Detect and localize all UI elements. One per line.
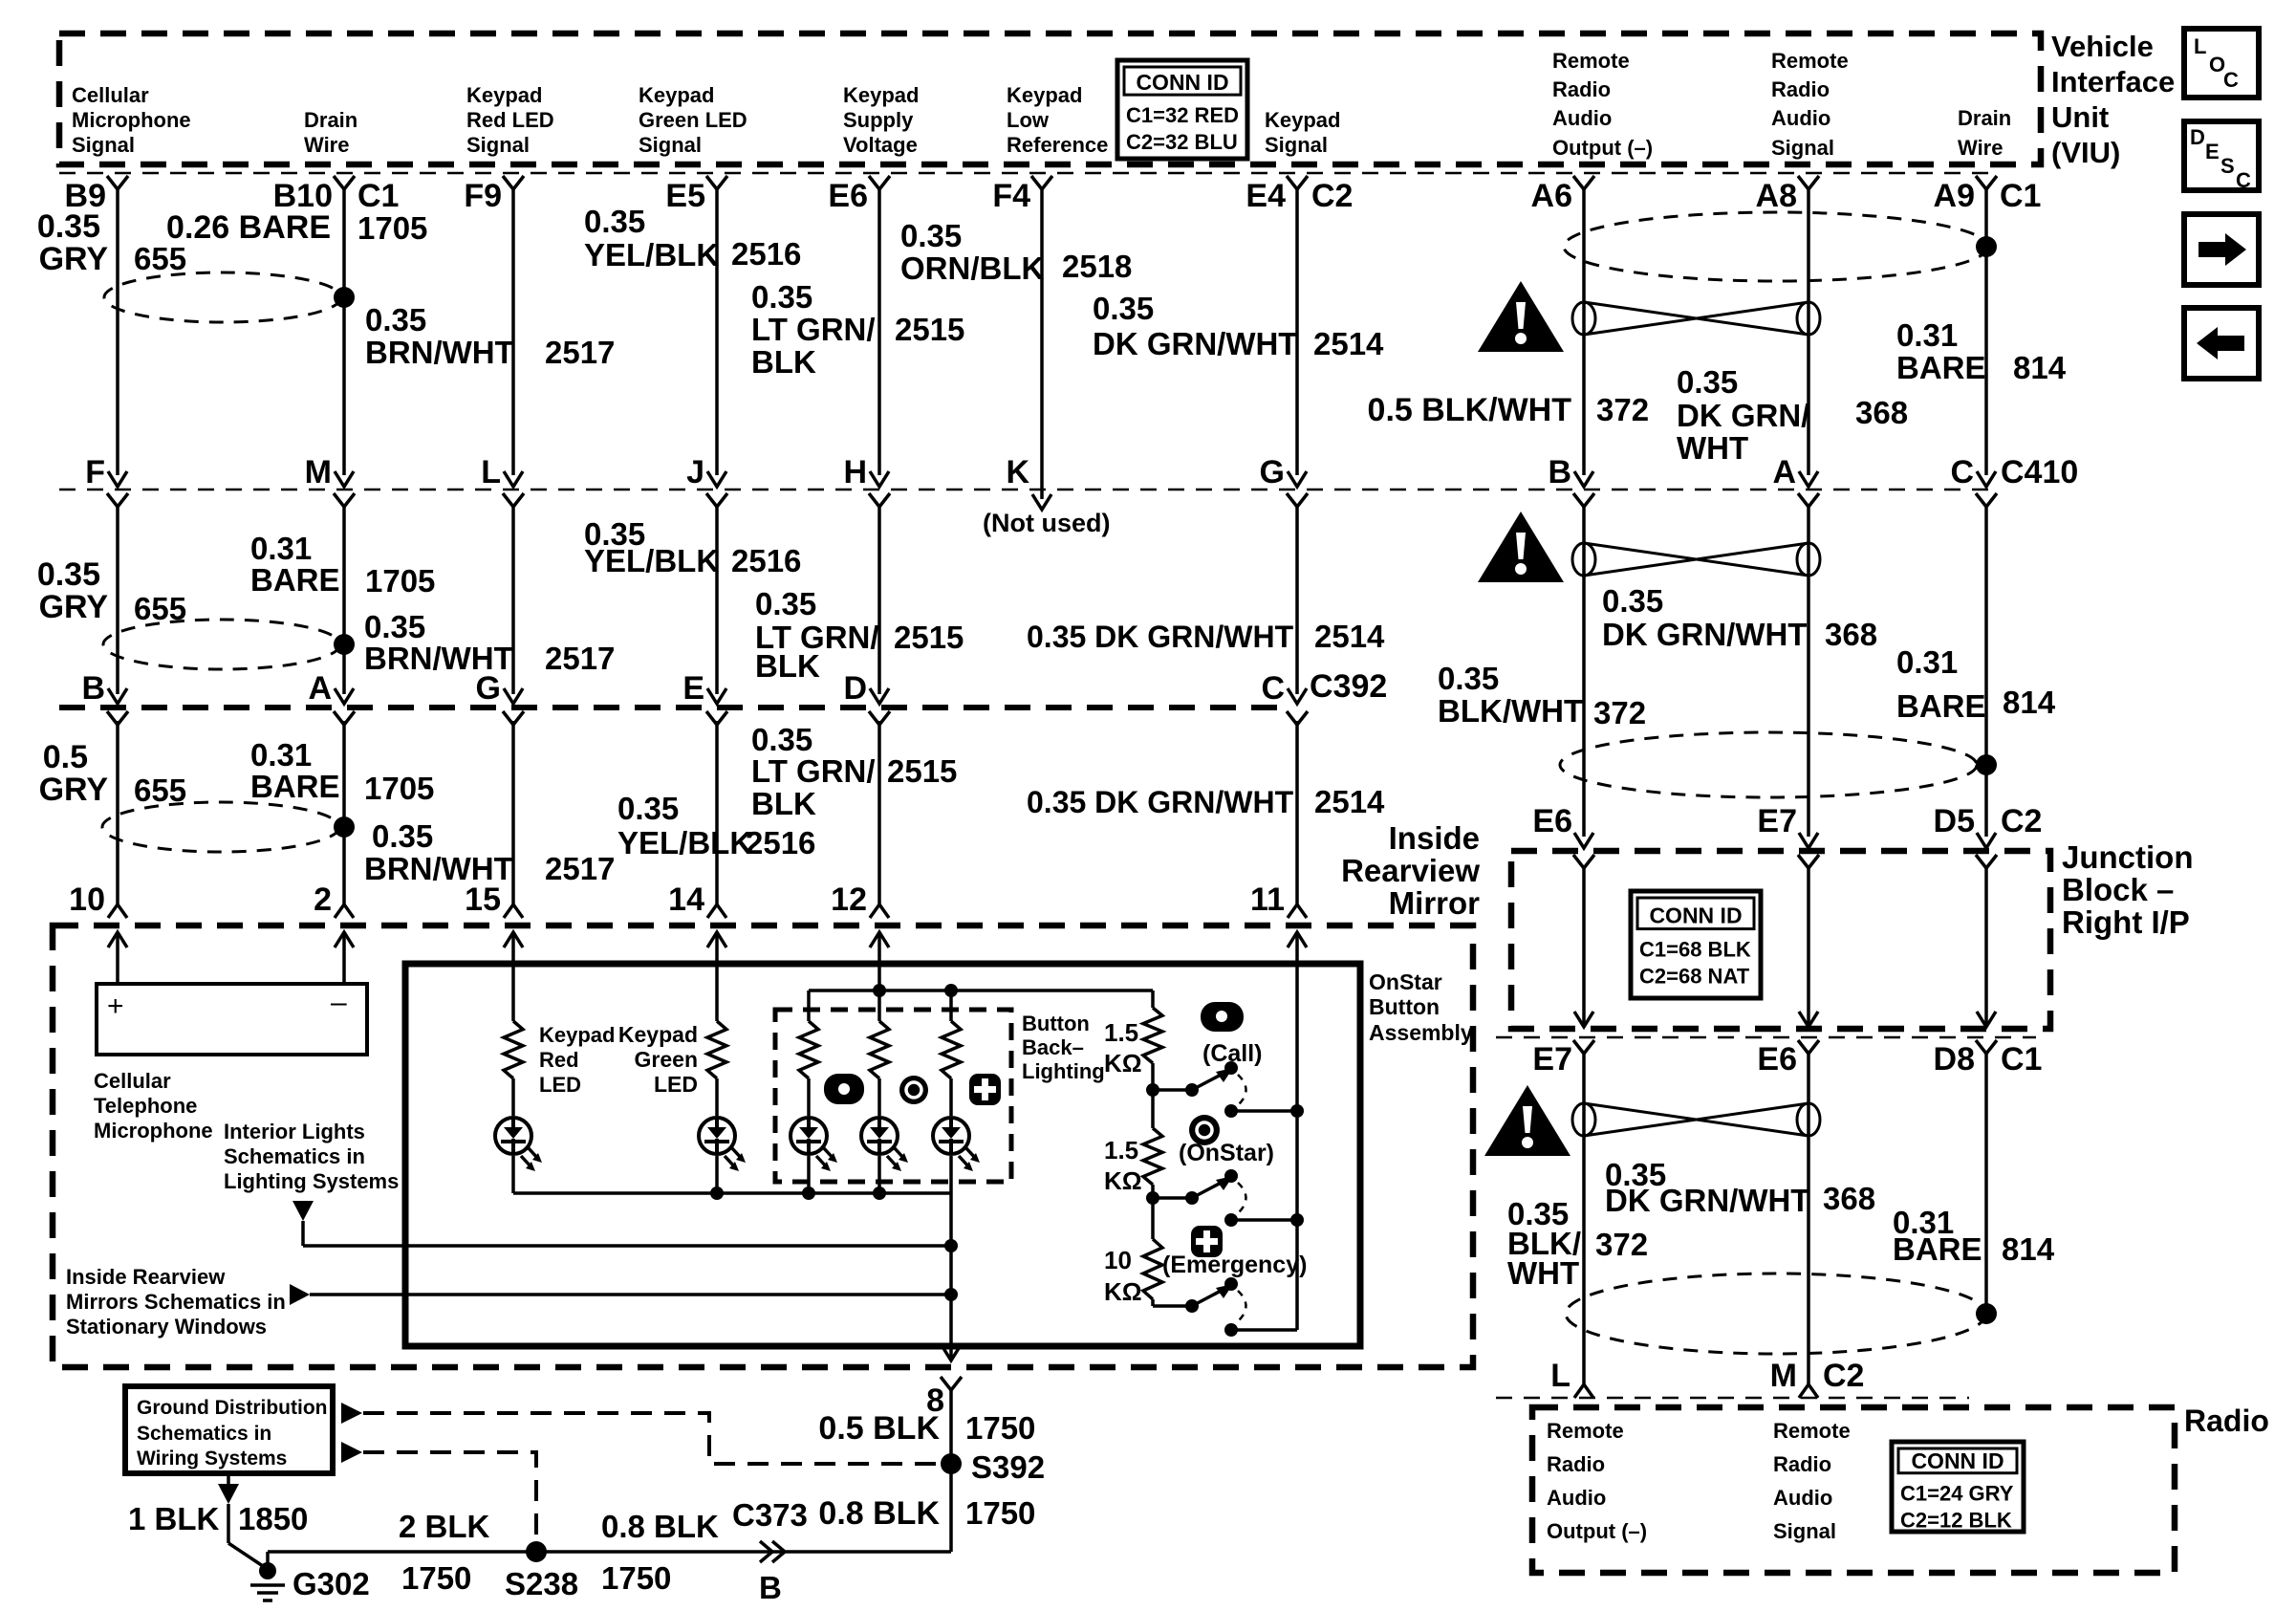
label 0.35 BLK/WHT (sec2) — [1438, 661, 1583, 729]
svg-text:0.35: 0.35 — [365, 302, 426, 337]
svg-text:(Emergency): (Emergency) — [1162, 1252, 1307, 1278]
wire section2 — [116, 505, 119, 694]
svg-text:Red LED: Red LED — [466, 108, 554, 132]
label Radio — [2184, 1404, 2269, 1438]
left-arrow legend box — [2184, 308, 2259, 379]
svg-text:Vehicle: Vehicle — [2051, 30, 2154, 63]
call switch — [1153, 1061, 1297, 1118]
svg-text:E6: E6 — [1532, 803, 1572, 839]
pin D (connector C392 row) — [843, 670, 867, 707]
wire: keypad low reference (F4-K) — [1040, 188, 1044, 499]
label 2517 (sec3) — [545, 851, 615, 886]
label 0.31 BARE (radio sec) — [1893, 1205, 1982, 1267]
svg-text:C2=32 BLU: C2=32 BLU — [1126, 130, 1238, 154]
wire red LED to bus — [511, 1078, 515, 1193]
label C2 (radio) — [1823, 1358, 1864, 1394]
radio label: Remote Radio Audio Output (-) — [1547, 1419, 1647, 1543]
svg-text:0.35: 0.35 — [372, 818, 433, 854]
arrow at junction block bottom — [1799, 1012, 1818, 1027]
wire w2 into mic box — [342, 932, 346, 984]
pin 11 (mirror connector row) — [1250, 882, 1307, 918]
pin B (connector C392 row) — [81, 670, 105, 707]
svg-text:BLK: BLK — [751, 786, 816, 821]
node dot call switch — [1146, 1083, 1159, 1097]
resistor keypad red LED — [504, 1021, 523, 1078]
wire start V below junction block — [1798, 1040, 1819, 1054]
svg-text:C: C — [2223, 68, 2239, 92]
svg-text:14: 14 — [668, 882, 704, 918]
svg-text:YEL/BLK: YEL/BLK — [584, 543, 719, 578]
label Keypad Green LED — [618, 1022, 698, 1097]
LOC legend box — [2184, 29, 2259, 98]
label Inside Rearview Mirror — [1341, 820, 1480, 921]
wire w4 into onstar box — [715, 932, 719, 1021]
svg-text:2515: 2515 — [895, 312, 964, 347]
pin A (connector C410 row) — [1772, 454, 1796, 490]
pin M (connector C410 row) — [305, 454, 332, 490]
keypad supply feed line — [809, 984, 1153, 997]
svg-text:Wire: Wire — [304, 133, 349, 157]
svg-text:GRY: GRY — [39, 589, 109, 625]
radio label: Remote Radio Audio Signal — [1773, 1419, 1851, 1543]
svg-text:BLK: BLK — [755, 648, 820, 684]
svg-text:Keypad: Keypad — [539, 1023, 615, 1047]
wire w7 into onstar box — [1295, 932, 1299, 1111]
inline connector C373 — [732, 1497, 808, 1562]
resistor 1.5 Kohm (OnStar) — [1143, 1128, 1162, 1185]
pin 14 (mirror connector row) — [668, 882, 726, 918]
svg-text:ORN/BLK: ORN/BLK — [900, 250, 1044, 286]
svg-text:Schematics in: Schematics in — [137, 1423, 271, 1445]
svg-text:BLK: BLK — [751, 344, 816, 380]
label 1705 (sec1) — [357, 210, 427, 246]
dashed link to S238 — [363, 1452, 536, 1540]
pin 8 — [926, 1382, 944, 1419]
label 0.8 BLK (left) — [601, 1509, 719, 1544]
svg-text:1.5: 1.5 — [1104, 1136, 1138, 1165]
svg-text:G: G — [476, 670, 501, 707]
ground stub wire — [228, 1504, 266, 1568]
svg-text:0.35: 0.35 — [751, 279, 812, 315]
CONN ID box (radio) — [1892, 1442, 2024, 1533]
splice S392 — [941, 1453, 962, 1474]
svg-text:YEL/BLK: YEL/BLK — [617, 825, 752, 860]
svg-text:Output (–): Output (–) — [1552, 136, 1653, 160]
label C1 (radio section) — [2001, 1041, 2042, 1078]
svg-text:Button: Button — [1022, 1012, 1090, 1035]
wire: keypad signal (E4-G) — [1295, 188, 1299, 475]
svg-text:Block –: Block – — [2062, 872, 2174, 907]
svg-text:D8: D8 — [1934, 1041, 1975, 1078]
svg-text:DK GRN/WHT: DK GRN/WHT — [1602, 617, 1807, 652]
label 2 BLK — [399, 1509, 490, 1544]
svg-text:Mirrors Schematics in: Mirrors Schematics in — [66, 1290, 286, 1314]
label 368 (sec1) — [1855, 395, 1908, 430]
wire through junction block — [1582, 866, 1586, 1027]
wire section2 — [511, 505, 515, 694]
pin F4 — [992, 178, 1030, 214]
label D8 (radio section) — [1934, 1041, 1975, 1078]
wire section2 — [1295, 505, 1299, 694]
svg-text:Microphone: Microphone — [94, 1119, 213, 1143]
wire start V at VIU connector — [706, 176, 727, 189]
VIU label: Keypad Green LED Signal — [639, 83, 747, 157]
label 0.31 BARE (sec2) — [250, 531, 340, 598]
label S392 — [971, 1449, 1045, 1485]
arrow at junction block bottom — [1574, 1012, 1593, 1027]
label 1.5 Kohm (1) — [1104, 1018, 1142, 1078]
connector line C392 (thick dashed) — [59, 705, 1292, 710]
wire mirrors schematics to node B — [310, 1288, 958, 1301]
double chevron at C410 — [1573, 471, 1594, 507]
svg-text:G: G — [1260, 454, 1285, 490]
svg-text:Keypad: Keypad — [639, 83, 714, 107]
double chevron at C410 — [1287, 471, 1308, 507]
svg-text:B: B — [759, 1570, 782, 1605]
svg-text:BARE: BARE — [1896, 688, 1986, 724]
svg-text:1750: 1750 — [965, 1495, 1035, 1531]
svg-text:Audio: Audio — [1547, 1486, 1606, 1510]
svg-text:LED: LED — [654, 1072, 698, 1097]
svg-text:A8: A8 — [1756, 178, 1797, 214]
svg-text:A6: A6 — [1531, 178, 1572, 214]
svg-text:D: D — [843, 670, 867, 707]
label 1750 (0.8 BLK left) — [601, 1560, 671, 1596]
label 655 (sec2) — [134, 591, 186, 626]
svg-text:Junction: Junction — [2062, 839, 2194, 875]
wire section3 — [116, 721, 119, 904]
svg-text:814: 814 — [2003, 685, 2056, 720]
label 0.8 BLK (right) — [818, 1495, 940, 1532]
onstar button icon — [1189, 1115, 1220, 1145]
svg-text:Remote: Remote — [1773, 1419, 1851, 1443]
Junction Block - Right I/P box — [1511, 851, 2050, 1029]
label 0.5 BLK — [818, 1410, 940, 1447]
svg-text:Radio: Radio — [1771, 77, 1830, 101]
svg-text:Rearview: Rearview — [1341, 853, 1480, 888]
Ground Distribution Schematics in Wiring Systems box — [125, 1386, 333, 1473]
label 1705 (sec3) — [364, 771, 434, 806]
label 0.35 DK GRN/WHT (sec1) — [1093, 291, 1297, 361]
svg-text:10: 10 — [69, 882, 105, 918]
label 2516 (sec2) — [731, 543, 801, 578]
svg-text:0.35: 0.35 — [1677, 364, 1738, 400]
svg-text:K: K — [1006, 454, 1029, 490]
svg-text:Green LED: Green LED — [639, 108, 747, 132]
label E7 (radio section) — [1532, 1041, 1572, 1078]
svg-text:C392: C392 — [1310, 668, 1387, 705]
wire w1 into mic box — [116, 932, 119, 984]
wire section3 — [877, 721, 881, 904]
svg-text:368: 368 — [1823, 1181, 1875, 1216]
svg-text:1750: 1750 — [401, 1560, 471, 1596]
backlight emergency icon — [969, 1074, 1001, 1105]
svg-text:1750: 1750 — [601, 1560, 671, 1596]
resistor keypad green LED — [707, 1021, 726, 1078]
svg-text:YEL/BLK: YEL/BLK — [584, 237, 719, 272]
label 372 (radio sec) — [1595, 1227, 1648, 1262]
svg-text:L: L — [481, 454, 501, 490]
svg-text:Radio: Radio — [1552, 77, 1611, 101]
backlight branch resistor x=920 — [870, 991, 889, 1078]
svg-text:BLK/WHT: BLK/WHT — [1438, 693, 1583, 729]
svg-text:C: C — [1950, 454, 1974, 490]
svg-text:655: 655 — [134, 241, 186, 276]
label 0.31 BARE (sec3) — [250, 737, 340, 804]
label 1750 (0.8 BLK right) — [965, 1495, 1035, 1531]
label 0.35 YEL/BLK (sec1) — [584, 204, 719, 272]
label 1.5 Kohm (2) — [1104, 1136, 1142, 1195]
svg-text:2517: 2517 — [545, 851, 615, 886]
svg-text:Green: Green — [635, 1047, 698, 1072]
ground bus to G302 link — [266, 1552, 270, 1569]
svg-text:Red: Red — [539, 1048, 579, 1072]
wire section3 — [1295, 721, 1299, 904]
wire7 inside box — [1295, 1111, 1299, 1330]
arrow below ground box — [218, 1473, 239, 1504]
label 372 (sec1) — [1596, 392, 1649, 427]
svg-text:Lighting Systems: Lighting Systems — [224, 1169, 399, 1193]
double chevron at C410 — [706, 471, 727, 507]
svg-text:–: – — [331, 987, 347, 1018]
svg-text:D: D — [2190, 125, 2205, 149]
svg-text:Inside Rearview: Inside Rearview — [66, 1265, 226, 1289]
VIU label: Keypad Supply Voltage — [843, 83, 919, 157]
connector line C1/C2 at VIU (thin dashed) — [59, 172, 1990, 175]
right-arrow legend box — [2184, 214, 2259, 285]
svg-text:C410: C410 — [2001, 454, 2078, 490]
V below mirror box bottom — [941, 1377, 962, 1390]
svg-text:368: 368 — [1855, 395, 1908, 430]
VIU label: Drain Wire (right) — [1958, 106, 2011, 160]
svg-text:Drain: Drain — [1958, 106, 2011, 130]
svg-text:E5: E5 — [665, 178, 705, 214]
wire section3 — [715, 721, 719, 904]
svg-text:BARE: BARE — [250, 769, 340, 804]
svg-text:0.35: 0.35 — [1438, 661, 1499, 696]
svg-text:J: J — [686, 454, 704, 490]
shield ellipse (radio sec) with dot — [1566, 1274, 1997, 1354]
svg-text:LT GRN/: LT GRN/ — [751, 753, 876, 789]
svg-text:Signal: Signal — [1265, 133, 1328, 157]
wire start V at VIU connector — [869, 176, 890, 189]
double chevron at junction block top — [1976, 833, 1997, 868]
conn C2 — [1311, 178, 1353, 214]
title: Vehicle Interface Unit (VIU) — [2051, 30, 2175, 169]
warning triangle (right sec1) — [1478, 281, 1564, 352]
double chevron at C392 — [869, 688, 890, 725]
wire start V at VIU connector — [107, 176, 128, 189]
svg-text:BARE: BARE — [250, 562, 340, 598]
wire w9 radio section — [1807, 1053, 1810, 1384]
svg-text:(Call): (Call) — [1202, 1040, 1263, 1067]
label 1850 — [238, 1501, 308, 1536]
svg-text:Telephone: Telephone — [94, 1094, 197, 1118]
svg-text:B: B — [1548, 454, 1571, 490]
pin E4 — [1245, 178, 1286, 214]
svg-text:0.26 BARE: 0.26 BARE — [166, 209, 331, 246]
label Junction Block - Right I/P — [2062, 839, 2194, 940]
svg-text:Interior Lights: Interior Lights — [224, 1120, 365, 1143]
label 0.35 DK GRN/WHT (radio sec) — [1605, 1157, 1809, 1218]
entry arrow into mirror box — [870, 932, 889, 947]
label 0.26 BARE — [166, 209, 331, 246]
svg-text:BARE: BARE — [1896, 350, 1986, 385]
backlight LED x=920 — [861, 1078, 908, 1193]
svg-text:KΩ: KΩ — [1104, 1049, 1142, 1078]
svg-text:KΩ: KΩ — [1104, 1277, 1142, 1306]
svg-text:M: M — [1770, 1358, 1797, 1394]
Radio component box — [1532, 1407, 2175, 1573]
backlight LED x=846 — [791, 1078, 837, 1193]
svg-text:C1=24 GRY: C1=24 GRY — [1900, 1482, 2014, 1506]
arrow from interior lights — [292, 1201, 314, 1221]
label 2517 (sec2) — [545, 641, 615, 676]
pin F9 — [464, 178, 502, 214]
svg-text:A: A — [1772, 454, 1796, 490]
svg-text:0.5 BLK: 0.5 BLK — [818, 1410, 940, 1447]
keypad red LED symbol — [495, 1118, 542, 1171]
label OnStar Button Assembly — [1369, 969, 1473, 1045]
ground symbol G302 — [250, 1562, 285, 1600]
exit arrow onstar box bottom — [942, 1344, 961, 1361]
svg-text:Radio: Radio — [2184, 1404, 2269, 1438]
svg-text:0.35: 0.35 — [37, 208, 100, 245]
svg-text:OnStar: OnStar — [1369, 969, 1442, 994]
wire section3 — [342, 721, 346, 904]
label Keypad Red LED — [539, 1023, 615, 1097]
label 0.35 DK GRN/WHT (sec2) — [1027, 620, 1294, 654]
svg-text:15: 15 — [465, 882, 501, 918]
double chevron at C410 — [1976, 471, 1997, 507]
wire: remote radio audio signal (A8-A) — [1807, 188, 1810, 475]
twisted pair symbol (sec1) — [1572, 302, 1820, 335]
svg-text:C: C — [2236, 168, 2251, 192]
connector line below junction block (thin dashed) — [1496, 1036, 2036, 1039]
wire w8 radio section — [1582, 1053, 1586, 1384]
label Interior Lights Schematics in Lighting Systems — [224, 1120, 399, 1193]
onstar switch — [1153, 1169, 1297, 1227]
wire start V at VIU connector — [1573, 176, 1594, 189]
label M (radio) — [1770, 1358, 1797, 1394]
svg-text:Output (–): Output (–) — [1547, 1519, 1647, 1543]
svg-text:2517: 2517 — [545, 335, 615, 370]
svg-text:0.31: 0.31 — [250, 531, 312, 566]
wire: cellular microphone signal (B9-F) — [116, 188, 119, 475]
wire w5 into onstar box — [877, 932, 881, 991]
double chevron at C392 — [1287, 688, 1308, 725]
svg-text:Signal: Signal — [72, 133, 135, 157]
call button icon — [1201, 1002, 1244, 1032]
wire w3 into onstar box — [511, 932, 515, 1021]
label 2515 (sec2) — [894, 620, 964, 655]
backlight dashed box — [775, 1010, 1011, 1182]
double chevron at junction block top — [1573, 833, 1594, 868]
svg-text:Keypad: Keypad — [466, 83, 542, 107]
Inside Rearview Mirror component box — [53, 925, 1473, 1367]
svg-text:11: 11 — [1250, 882, 1285, 918]
VIU label: Keypad Low Reference — [1007, 83, 1108, 157]
svg-text:Wire: Wire — [1958, 136, 2003, 160]
backlight LED x=995 — [933, 1078, 980, 1193]
svg-text:Signal: Signal — [466, 133, 530, 157]
svg-text:814: 814 — [2002, 1231, 2055, 1267]
label Button Back-Lighting — [1022, 1012, 1105, 1083]
svg-text:0.35: 0.35 — [584, 204, 645, 239]
svg-text:0.5 BLK/WHT: 0.5 BLK/WHT — [1368, 392, 1572, 428]
pin E (connector C392 row) — [682, 670, 704, 707]
label 368 (sec2) — [1825, 617, 1877, 652]
svg-text:E7: E7 — [1757, 803, 1797, 839]
twisted pair symbol (radio section) — [1572, 1103, 1820, 1136]
label 368 (radio sec) — [1823, 1181, 1875, 1216]
svg-text:Keypad: Keypad — [1265, 108, 1340, 132]
svg-text:F9: F9 — [464, 178, 502, 214]
svg-text:B: B — [81, 670, 105, 707]
svg-text:372: 372 — [1595, 1227, 1648, 1262]
junction dot wire7 call — [1290, 1104, 1304, 1118]
svg-text:2518: 2518 — [1062, 249, 1132, 284]
wire start V below junction block — [1976, 1040, 1997, 1054]
pin B9 — [65, 178, 106, 214]
svg-text:Interface: Interface — [2051, 65, 2175, 98]
svg-text:BRN/WHT: BRN/WHT — [365, 335, 514, 370]
shield ellipse (right sec2) with dot — [1560, 732, 1997, 797]
wire start V at VIU connector — [503, 176, 524, 189]
svg-text:Audio: Audio — [1552, 106, 1612, 130]
svg-text:Button: Button — [1369, 994, 1440, 1019]
svg-text:0.31: 0.31 — [250, 737, 312, 773]
svg-text:Wiring Systems: Wiring Systems — [137, 1448, 287, 1469]
svg-text:Lighting: Lighting — [1022, 1059, 1105, 1083]
svg-text:Keypad: Keypad — [618, 1022, 698, 1047]
svg-text:C1: C1 — [2000, 178, 2041, 214]
arrow ground box 1 — [341, 1403, 362, 1424]
svg-text:0.35: 0.35 — [1093, 291, 1154, 326]
wire: keypad red LED signal (F9-L) — [511, 188, 515, 475]
svg-text:Stationary Windows: Stationary Windows — [66, 1315, 267, 1339]
svg-text:0.35 DK GRN/WHT: 0.35 DK GRN/WHT — [1027, 785, 1294, 819]
svg-text:0.35: 0.35 — [755, 586, 816, 621]
label 0.35 GRY (sec1) — [37, 208, 109, 277]
backlight branch resistor x=846 — [799, 991, 818, 1078]
label 2515 (sec1) — [895, 312, 964, 347]
svg-text:WHT: WHT — [1507, 1255, 1579, 1291]
pin K (connector C410 row) — [1006, 454, 1029, 490]
svg-text:0.35 DK GRN/WHT: 0.35 DK GRN/WHT — [1027, 620, 1294, 654]
wire end chevron w8 radio — [1574, 1384, 1593, 1398]
pin 15 (mirror connector row) — [465, 882, 523, 918]
wire start V at VIU connector — [334, 176, 355, 189]
svg-text:2517: 2517 — [545, 641, 615, 676]
pin J (connector C410 row) — [686, 454, 704, 490]
label 0.35 BRN/WHT (sec2) — [364, 609, 513, 676]
svg-text:Drain: Drain — [304, 108, 357, 132]
double chevron at junction block top — [1798, 833, 1819, 868]
wire section2 — [877, 505, 881, 694]
svg-text:2516: 2516 — [746, 825, 815, 860]
double chevron at C410 — [869, 471, 890, 507]
VIU label: Keypad Red LED Signal — [466, 83, 554, 157]
svg-text:1850: 1850 — [238, 1501, 308, 1536]
svg-text:DK GRN/WHT: DK GRN/WHT — [1605, 1183, 1809, 1218]
wire section2 w8 — [1582, 505, 1586, 837]
conn C392 — [1310, 668, 1387, 705]
label 1 BLK — [128, 1501, 220, 1536]
label 0.35 BLK/WHT (radio sec) — [1507, 1196, 1581, 1291]
label 0.35 LT GRN/BLK (sec2) — [755, 586, 879, 684]
svg-text:2515: 2515 — [887, 753, 957, 789]
